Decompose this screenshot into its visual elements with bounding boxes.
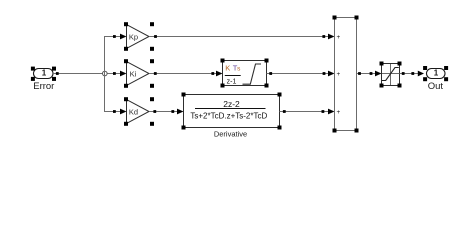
svg-text:Derivative: Derivative <box>214 130 247 139</box>
svg-text:1: 1 <box>434 68 439 77</box>
discrete integrator block <box>221 59 269 88</box>
gain Ki <box>124 59 154 88</box>
wire branch to Kd <box>105 109 127 115</box>
svg-text:Ts+2*TcD.z+Ts-2*TcD: Ts+2*TcD.z+Ts-2*TcD <box>190 112 267 121</box>
wire branch to Kp <box>105 34 127 40</box>
svg-text:Kd: Kd <box>129 107 138 116</box>
wire integrator to sum input 2 <box>267 71 335 77</box>
node junction <box>103 71 108 76</box>
wire Kp to sum input 1 <box>149 34 335 40</box>
svg-text:1: 1 <box>42 68 47 77</box>
wire derivative to sum input 3 <box>280 109 335 115</box>
outport Out <box>423 66 448 92</box>
sum block <box>333 16 359 133</box>
saturation block <box>380 62 402 88</box>
transfer function Derivative <box>182 93 282 139</box>
svg-text:Error: Error <box>33 81 54 92</box>
gain Kp <box>124 22 154 51</box>
svg-text:K: K <box>225 63 230 72</box>
svg-text:Ki: Ki <box>130 69 137 78</box>
svg-text:+: + <box>337 34 341 41</box>
svg-text:Kp: Kp <box>129 32 138 41</box>
svg-text:Out: Out <box>428 81 444 92</box>
wire Error to junction to Ki <box>53 71 127 77</box>
gain Kd <box>124 97 154 126</box>
inport Error <box>31 67 56 92</box>
wire branch vertical <box>104 36 106 112</box>
svg-text:+: + <box>337 109 341 116</box>
svg-text:z-1: z-1 <box>227 78 237 85</box>
wire Kd to derivative <box>149 109 184 115</box>
wire Ki to integrator <box>149 71 223 77</box>
wire sum to saturation <box>357 71 382 77</box>
svg-text:2z-2: 2z-2 <box>223 99 240 109</box>
svg-text:+: + <box>337 71 341 78</box>
wire saturation to Out <box>400 71 425 77</box>
